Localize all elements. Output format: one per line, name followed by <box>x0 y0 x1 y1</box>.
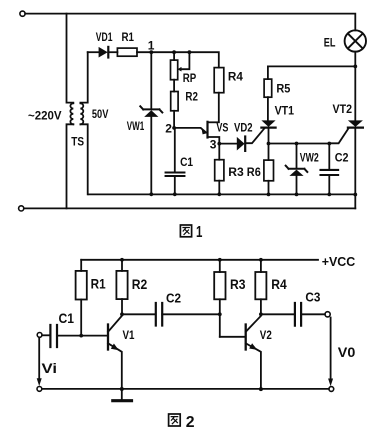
svg-text:R2: R2 <box>132 276 148 292</box>
transformer TS secondary coil <box>80 103 83 124</box>
wire +VCC rail <box>81 259 318 261</box>
wire C1 to V1 base <box>57 335 107 337</box>
svg-text:VS: VS <box>216 120 228 134</box>
transistor V1 <box>108 314 122 389</box>
wire R3 column to V2 base <box>220 336 245 338</box>
svg-text:V2: V2 <box>260 328 272 342</box>
svg-text:2: 2 <box>165 121 172 135</box>
svg-text:VW2: VW2 <box>300 152 319 164</box>
svg-text:C1: C1 <box>59 310 75 326</box>
node junction V2 collector <box>259 312 263 316</box>
resistor R3 (fig2) <box>214 260 225 337</box>
transformer TS primary coil <box>70 103 73 124</box>
node junction emitter V2 <box>259 387 263 391</box>
node junction emitter V1 ground <box>120 387 124 391</box>
svg-text:R4: R4 <box>228 69 243 83</box>
zener VW2 <box>286 144 308 195</box>
svg-text:1: 1 <box>148 39 155 53</box>
node junction rail corner <box>353 193 357 197</box>
node junction RP top <box>172 50 176 54</box>
svg-text:+VCC: +VCC <box>322 255 356 269</box>
wire R1 to node 1 and on to R4 <box>137 52 219 67</box>
node 3 <box>217 142 221 146</box>
terminal top-left input <box>20 11 25 16</box>
transistor V2 <box>246 314 261 389</box>
node junction VW1 bottom <box>149 192 153 196</box>
svg-text:R1: R1 <box>91 276 106 292</box>
resistor R2 (fig2) <box>116 260 127 315</box>
node junction VT1 cathode <box>267 142 271 146</box>
wire V0 with arrow <box>328 318 333 387</box>
zener VW1 <box>140 52 162 194</box>
svg-text:C1: C1 <box>180 155 193 169</box>
wire top rail <box>25 14 355 31</box>
trigger device VS <box>174 122 219 144</box>
svg-text:VW1: VW1 <box>127 119 145 133</box>
svg-text:C3: C3 <box>305 290 320 305</box>
wire bottom rail (fig2) <box>42 388 329 390</box>
svg-text:R3: R3 <box>230 276 246 292</box>
resistor R2 (fig1) <box>171 80 178 128</box>
wire secondary right <box>80 52 87 194</box>
wire C2 to R3 column <box>162 313 220 315</box>
resistor R4 (fig2) <box>255 260 266 315</box>
node junction R3 mid <box>218 312 222 316</box>
wire outer bottom rail <box>24 207 355 209</box>
wire inner common rail <box>89 194 356 208</box>
wire 220V primary left <box>67 14 74 209</box>
node junction R6 bottom <box>267 193 271 197</box>
node 2 <box>172 126 176 130</box>
resistor R1 (fig2) <box>76 260 87 336</box>
terminal bottom-left input <box>19 206 24 211</box>
resistor R1 (fig1) <box>117 48 137 56</box>
resistor R4 <box>214 68 224 122</box>
node junction R3 top <box>218 258 222 262</box>
terminal input Vi top <box>37 333 42 338</box>
svg-text:C2: C2 <box>166 291 181 306</box>
diode VD1 <box>88 47 118 58</box>
resistor R5 <box>264 66 272 120</box>
node junction R3 bottom <box>217 192 221 196</box>
node junction R1 base <box>79 334 83 338</box>
potentiometer RP <box>171 52 190 79</box>
svg-text:R4: R4 <box>271 276 287 292</box>
wire gate bus VT1 cathode to C2 <box>269 143 330 145</box>
svg-text:50V: 50V <box>92 107 109 121</box>
svg-text:VD1: VD1 <box>96 30 113 44</box>
svg-text:VT1: VT1 <box>275 103 295 117</box>
svg-text:2: 2 <box>186 414 195 431</box>
node junction R4 top <box>259 258 263 262</box>
node junction C1 bottom <box>173 192 177 196</box>
svg-text:R3: R3 <box>228 165 244 179</box>
svg-text:VT2: VT2 <box>333 102 353 116</box>
node junction VW2 top <box>295 142 299 146</box>
svg-text:1: 1 <box>196 224 203 241</box>
ground <box>113 389 132 401</box>
node junction C2 top <box>327 142 331 146</box>
svg-text:R5: R5 <box>276 82 290 96</box>
svg-text:V0: V0 <box>338 344 356 360</box>
svg-text:VD2: VD2 <box>234 121 253 135</box>
thyristor VT2 <box>329 120 363 194</box>
node junction VW2 bottom <box>295 193 299 197</box>
wire EL to anode bus <box>354 52 356 121</box>
capacitor C2 (fig1) <box>321 144 339 195</box>
wire Vi with arrow <box>37 337 42 386</box>
node junction RP wiper <box>188 50 192 54</box>
capacitor C1 (fig1) <box>166 128 185 194</box>
wire C3 to output terminal <box>301 313 325 315</box>
node 1 <box>149 50 153 54</box>
caption 图1 <box>180 224 202 241</box>
node junction EL/VT2/R5 <box>353 65 357 69</box>
capacitor C2 (fig2) <box>156 303 162 326</box>
node junction C2 bottom <box>327 193 331 197</box>
resistor R3 <box>215 144 224 195</box>
svg-text:V1: V1 <box>123 328 135 342</box>
lamp EL <box>345 30 366 51</box>
svg-text:3: 3 <box>210 137 217 151</box>
thyristor VT1 <box>246 120 276 143</box>
node junction R2 top <box>120 258 124 262</box>
wire R5 top bus <box>268 65 355 67</box>
node junction V1 collector <box>120 312 124 316</box>
svg-text:R1: R1 <box>122 30 135 44</box>
resistor R6 <box>264 144 274 195</box>
svg-text:TS: TS <box>71 135 84 149</box>
capacitor C3 <box>295 303 301 326</box>
capacitor C1 (fig2) <box>50 325 57 347</box>
svg-text:C2: C2 <box>335 152 349 164</box>
svg-text:RP: RP <box>183 71 197 85</box>
wire input to C1 <box>42 334 50 336</box>
terminal input Vi bottom <box>37 387 42 392</box>
wire collector to C3 <box>261 313 295 315</box>
svg-text:EL: EL <box>324 35 336 49</box>
svg-text:R2: R2 <box>185 90 198 104</box>
svg-text:Vi: Vi <box>42 360 58 376</box>
caption 图2 <box>169 414 195 431</box>
svg-text:R6: R6 <box>247 165 261 179</box>
terminal output bottom <box>329 387 334 392</box>
terminal output top <box>325 312 330 317</box>
svg-text:~220V: ~220V <box>28 108 62 122</box>
diode VD2 <box>219 137 245 151</box>
wire collector to C2 <box>122 313 156 315</box>
